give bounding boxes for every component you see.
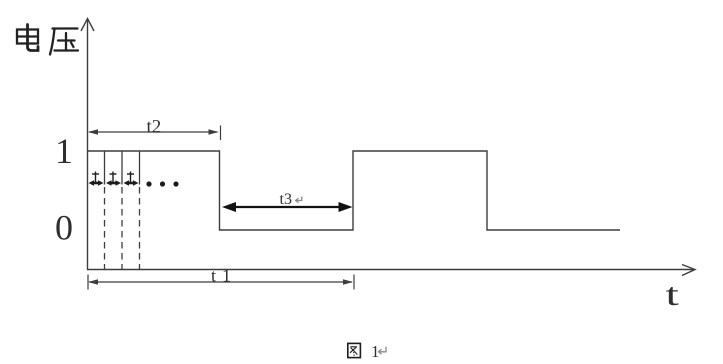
y-axis voltage label 电压 [17, 25, 78, 55]
y-axis [81, 19, 94, 271]
mini t marker 3 [124, 172, 139, 186]
x-axis arrowhead [682, 265, 695, 276]
caption return mark [379, 347, 387, 355]
t1 dimension line [88, 275, 354, 290]
t2 extension tick [220, 126, 222, 141]
y-axis arrowhead [81, 19, 94, 32]
ellipsis dots [146, 181, 178, 186]
sub-division solid lines [105, 151, 140, 185]
svg-text:1: 1 [222, 266, 231, 286]
waveform [88, 151, 621, 230]
caption 图 [348, 343, 361, 357]
mini t marker 2 [106, 172, 121, 186]
svg-text:t: t [211, 266, 216, 286]
svg-text:1: 1 [55, 131, 73, 171]
t3 double arrow [222, 202, 353, 212]
t3 return mark [296, 197, 302, 203]
mini t marker 1 [89, 172, 104, 186]
t1 extension ticks [87, 275, 89, 290]
svg-text:t: t [666, 277, 680, 312]
svg-text:t2: t2 [147, 117, 162, 138]
svg-text:0: 0 [55, 208, 73, 248]
svg-text:t3: t3 [280, 191, 292, 208]
x-axis (time axis) [87, 265, 695, 276]
t2 dimension line [88, 126, 221, 141]
sub-division dashed lines [105, 187, 140, 270]
